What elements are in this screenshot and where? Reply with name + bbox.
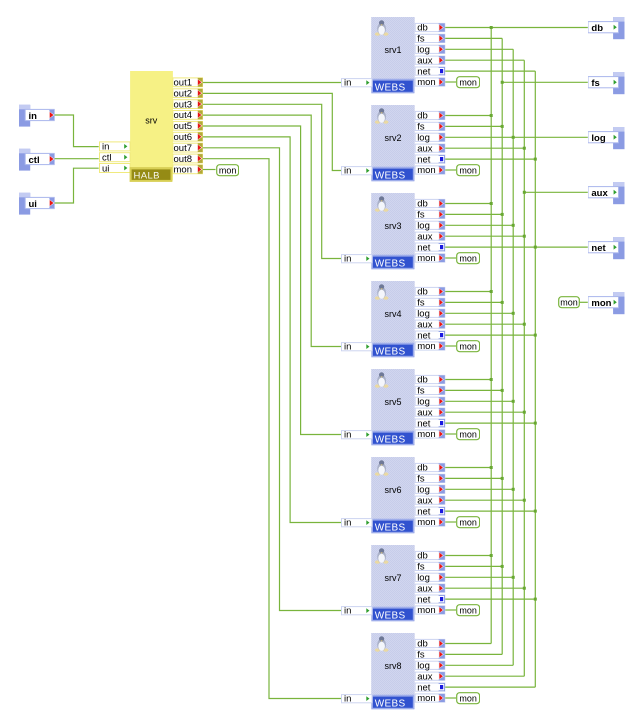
svg-text:mon: mon xyxy=(459,693,476,703)
svg-text:net: net xyxy=(417,242,431,253)
svg-text:aux: aux xyxy=(417,231,433,242)
svg-text:net: net xyxy=(417,682,431,693)
svg-text:mon: mon xyxy=(417,253,435,264)
svg-text:out4: out4 xyxy=(173,110,192,121)
svg-text:net: net xyxy=(417,330,431,341)
svg-text:mon: mon xyxy=(560,297,578,307)
svg-text:out7: out7 xyxy=(173,143,192,154)
svg-text:db: db xyxy=(417,639,428,650)
svg-text:in: in xyxy=(344,694,351,705)
svg-text:in: in xyxy=(29,111,38,122)
svg-text:mon: mon xyxy=(417,341,435,352)
svg-text:aux: aux xyxy=(591,188,608,199)
svg-text:log: log xyxy=(591,133,605,144)
svg-text:HALB: HALB xyxy=(133,171,159,182)
svg-text:db: db xyxy=(417,111,428,122)
svg-text:fs: fs xyxy=(417,386,425,397)
svg-text:in: in xyxy=(102,142,109,153)
svg-text:net: net xyxy=(417,418,431,429)
svg-text:out6: out6 xyxy=(173,132,192,143)
svg-text:mon: mon xyxy=(218,165,235,175)
svg-text:mon: mon xyxy=(417,517,435,528)
svg-text:srv4: srv4 xyxy=(384,309,401,319)
svg-text:ui: ui xyxy=(102,163,109,174)
svg-text:mon: mon xyxy=(459,341,476,351)
svg-text:WEBS: WEBS xyxy=(375,170,406,181)
svg-text:net: net xyxy=(591,243,606,254)
svg-text:log: log xyxy=(417,133,430,144)
svg-text:ctl: ctl xyxy=(102,153,112,164)
svg-text:aux: aux xyxy=(417,143,433,154)
svg-text:fs: fs xyxy=(417,562,425,573)
svg-text:WEBS: WEBS xyxy=(375,346,406,357)
svg-text:mon: mon xyxy=(459,77,476,87)
svg-text:WEBS: WEBS xyxy=(375,698,406,709)
svg-text:log: log xyxy=(417,221,430,232)
svg-text:net: net xyxy=(417,66,431,77)
svg-text:srv: srv xyxy=(145,116,157,126)
svg-text:mon: mon xyxy=(459,253,476,263)
svg-text:aux: aux xyxy=(417,671,433,682)
svg-text:mon: mon xyxy=(417,429,435,440)
svg-text:log: log xyxy=(417,45,430,56)
svg-text:mon: mon xyxy=(417,165,435,176)
svg-text:mon: mon xyxy=(591,298,611,309)
svg-text:out1: out1 xyxy=(173,78,192,89)
svg-text:fs: fs xyxy=(417,122,425,133)
svg-text:mon: mon xyxy=(173,165,191,176)
svg-text:aux: aux xyxy=(417,495,433,506)
svg-text:out3: out3 xyxy=(173,100,192,111)
svg-text:srv8: srv8 xyxy=(384,661,401,671)
svg-text:aux: aux xyxy=(417,583,433,594)
svg-text:ctl: ctl xyxy=(29,155,40,166)
svg-text:aux: aux xyxy=(417,407,433,418)
svg-text:net: net xyxy=(417,154,431,165)
svg-text:WEBS: WEBS xyxy=(375,258,406,269)
svg-text:srv6: srv6 xyxy=(384,485,401,495)
svg-text:WEBS: WEBS xyxy=(375,82,406,93)
svg-text:db: db xyxy=(417,23,428,34)
svg-text:log: log xyxy=(417,309,430,320)
svg-text:db: db xyxy=(417,375,428,386)
svg-text:db: db xyxy=(417,199,428,210)
svg-text:in: in xyxy=(344,518,351,529)
svg-text:mon: mon xyxy=(459,517,476,527)
svg-text:db: db xyxy=(417,463,428,474)
svg-text:mon: mon xyxy=(417,605,435,616)
svg-text:WEBS: WEBS xyxy=(375,522,406,533)
svg-text:in: in xyxy=(344,430,351,441)
svg-text:in: in xyxy=(344,606,351,617)
svg-text:WEBS: WEBS xyxy=(375,434,406,445)
svg-text:ui: ui xyxy=(29,199,37,210)
svg-text:log: log xyxy=(417,485,430,496)
svg-text:db: db xyxy=(591,23,603,34)
svg-text:fs: fs xyxy=(591,78,599,89)
svg-text:mon: mon xyxy=(417,693,435,704)
svg-text:fs: fs xyxy=(417,650,425,661)
svg-text:fs: fs xyxy=(417,474,425,485)
svg-text:db: db xyxy=(417,287,428,298)
svg-text:in: in xyxy=(344,78,351,89)
svg-text:net: net xyxy=(417,506,431,517)
svg-text:log: log xyxy=(417,661,430,672)
svg-text:net: net xyxy=(417,594,431,605)
svg-text:mon: mon xyxy=(459,429,476,439)
svg-text:mon: mon xyxy=(459,165,476,175)
svg-text:srv5: srv5 xyxy=(384,397,401,407)
svg-text:log: log xyxy=(417,573,430,584)
svg-text:out2: out2 xyxy=(173,89,192,100)
svg-text:fs: fs xyxy=(417,210,425,221)
svg-text:in: in xyxy=(344,342,351,353)
svg-text:db: db xyxy=(417,551,428,562)
svg-text:aux: aux xyxy=(417,319,433,330)
svg-text:in: in xyxy=(344,166,351,177)
svg-text:out5: out5 xyxy=(173,121,192,132)
svg-text:fs: fs xyxy=(417,298,425,309)
svg-text:fs: fs xyxy=(417,34,425,45)
svg-text:srv2: srv2 xyxy=(384,133,401,143)
svg-text:srv3: srv3 xyxy=(384,221,401,231)
svg-text:aux: aux xyxy=(417,55,433,66)
svg-text:log: log xyxy=(417,397,430,408)
svg-text:mon: mon xyxy=(459,605,476,615)
svg-text:srv7: srv7 xyxy=(384,573,401,583)
svg-text:in: in xyxy=(344,254,351,265)
svg-text:srv1: srv1 xyxy=(384,45,401,55)
svg-text:mon: mon xyxy=(417,77,435,88)
svg-text:out8: out8 xyxy=(173,154,192,165)
svg-text:WEBS: WEBS xyxy=(375,610,406,621)
